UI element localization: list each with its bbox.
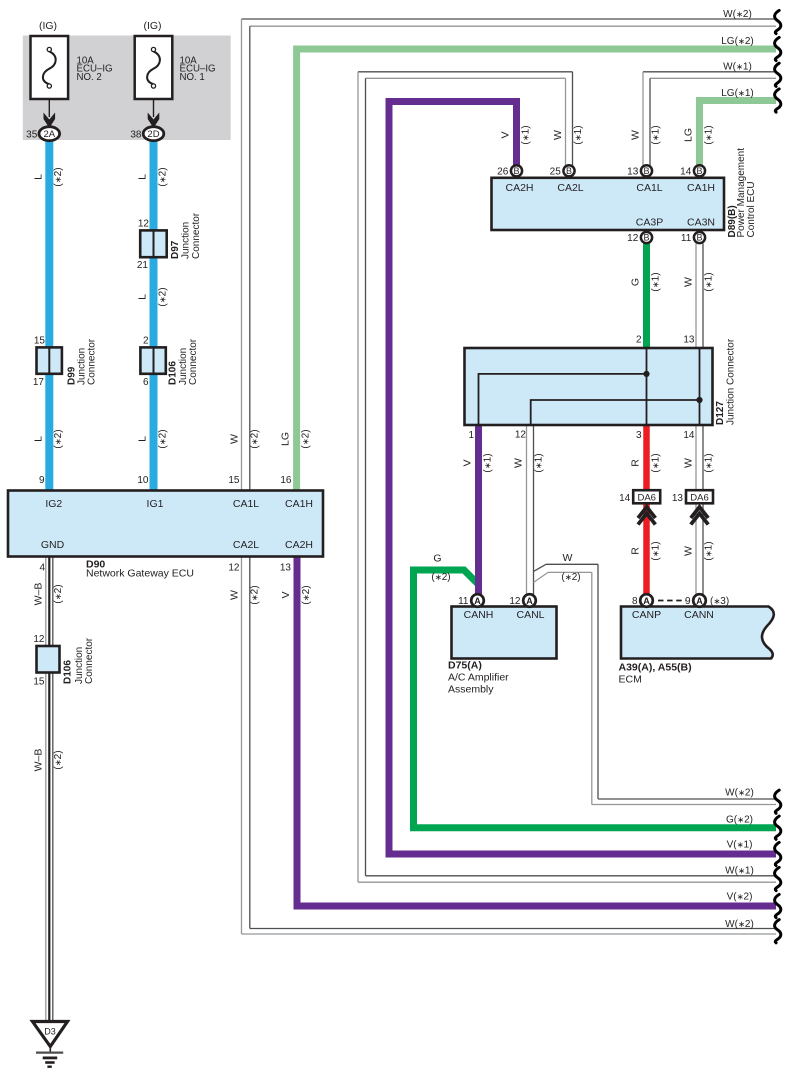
svg-text:9: 9 [39,475,45,486]
svg-text:G(∗2): G(∗2) [726,814,753,825]
fuse 10A ECU-IG NO. 2 [31,36,69,99]
svg-text:Connector: Connector [191,212,202,259]
svg-text:CA1H: CA1H [687,182,715,194]
wire W(*2) from D90 CA2L pin 12 down to bottom-right break [241,557,243,935]
svg-text:11: 11 [458,596,469,607]
break symbol for LG(*2) top wire [775,37,781,60]
svg-text:4: 4 [39,563,45,574]
svg-text:IG1: IG1 [147,498,164,510]
svg-text:11: 11 [681,233,692,244]
svg-text:3: 3 [636,430,642,441]
svg-text:(∗1): (∗1) [520,125,531,144]
svg-text:12: 12 [33,634,45,645]
svg-text:(∗2): (∗2) [250,429,261,448]
svg-text:L: L [137,436,149,442]
svg-text:W–B: W–B [32,749,44,772]
svg-text:W: W [229,434,241,444]
svg-text:21: 21 [137,260,149,271]
D127 internal vertical pin2-pin3 [646,348,648,425]
svg-text:9: 9 [685,596,691,607]
svg-text:D97: D97 [170,240,181,259]
svg-text:A: A [474,596,481,606]
svg-text:A39(A), A55(B): A39(A), A55(B) [619,662,692,674]
ECM A39(A), A55(B) box with torn right edge [621,607,774,659]
svg-text:A: A [643,596,650,606]
wire V(*1) from D127 pin 1 down to A/C amplifier CANH pin 11 [475,425,482,595]
svg-text:13: 13 [672,493,684,504]
svg-text:W: W [513,458,525,468]
dashes between CANP and CANN pins [658,600,686,602]
svg-text:B: B [643,233,649,243]
svg-text:CA2L: CA2L [557,182,583,194]
svg-text:(∗2): (∗2) [157,167,168,186]
svg-text:15: 15 [34,336,46,347]
svg-text:W: W [683,277,695,287]
svg-text:14: 14 [619,493,631,504]
svg-text:LG: LG [683,128,695,142]
pin 11 connector A [471,594,484,607]
svg-text:(∗1): (∗1) [650,272,661,291]
svg-text:Junction: Junction [180,222,191,259]
svg-text:(∗2): (∗2) [157,287,168,306]
svg-text:35: 35 [26,129,38,140]
svg-text:W: W [229,590,241,600]
connector DA6 (13) [686,490,713,503]
svg-text:CA1L: CA1L [636,182,662,194]
svg-text:W: W [563,552,573,564]
svg-text:1: 1 [468,430,474,441]
wire V(*2) from D90 CA2H pin 13 to bottom-right break [297,557,776,907]
svg-text:(∗2): (∗2) [53,584,64,603]
svg-text:2A: 2A [43,129,55,140]
svg-text:(∗1): (∗1) [533,453,544,472]
svg-text:ECM: ECM [619,674,642,686]
wire W(*1) from D89 pin 25 CA2L looping left and down to bottom-right break [572,72,574,166]
svg-text:(∗1): (∗1) [703,125,714,144]
svg-text:Connector: Connector [87,338,98,385]
svg-text:W(∗2): W(∗2) [723,9,752,20]
wire L(*2) from fuse 2A down to D90 IG2 pin 9 [45,139,53,491]
svg-text:LG(∗1): LG(∗1) [721,88,754,99]
svg-text:CA2H: CA2H [505,182,533,194]
svg-text:V: V [280,591,292,598]
svg-text:W(∗2): W(∗2) [725,919,754,930]
svg-text:W: W [552,130,564,140]
svg-text:(∗2): (∗2) [300,429,311,448]
wire G(*2) from CANH junction looping down to bottom-right break [414,570,777,828]
svg-text:12: 12 [228,563,240,574]
connector DA6 (14) [633,490,660,503]
svg-text:L: L [137,294,149,300]
break symbol for V(*2) bottom wire [775,894,781,917]
svg-text:IG2: IG2 [45,498,62,510]
svg-text:13: 13 [627,166,639,177]
break symbol for W(*2) bottom 2 wire [775,920,781,943]
svg-text:13: 13 [683,335,695,346]
wire R(*1) from D127 pin 3 down to DA6 connector [643,425,650,491]
svg-text:CANN: CANN [684,609,714,621]
svg-text:W: W [630,130,642,140]
svg-text:CA1L: CA1L [233,498,259,510]
break symbol for G(*2) bottom wire [775,816,781,839]
svg-text:2: 2 [636,335,642,346]
wire LG(*1) from top-right break to D89 pin 14 CA1H [700,101,777,166]
svg-text:D106: D106 [62,660,73,684]
D89 pin 25 connector B [563,165,574,176]
break symbol for W(*1) top wire [775,63,781,86]
svg-text:(IG): (IG) [39,20,57,32]
wire L(*2) from fuse 2D down to D90 IG1 pin 10 [150,139,158,491]
svg-text:14: 14 [680,166,692,177]
svg-text:R: R [630,459,642,467]
break symbol for W(*2) bottom wire [775,790,781,813]
junction connector D99 (two cells) [37,347,62,373]
ECU D90 Network Gateway ECU [8,491,323,557]
svg-text:A/C Amplifier: A/C Amplifier [448,672,509,684]
shield chevrons under DA6 (14) [638,507,655,518]
arrow from fuse to connector 2 [153,99,155,117]
svg-text:8: 8 [632,596,638,607]
wire W(*1) from D127 pin 14 through DA6 to ECM CANN pin 9 [695,425,697,595]
svg-text:NO. 2: NO. 2 [77,72,102,83]
wire W(*1) from top-right break to D89 pin 13 CA1L [643,71,776,73]
svg-text:Network Gateway ECU: Network Gateway ECU [86,568,194,580]
svg-text:Assembly: Assembly [448,684,494,696]
svg-text:G: G [630,278,642,286]
svg-text:W: W [683,546,695,556]
svg-text:(∗1): (∗1) [703,453,714,472]
D127 junction dot B [696,397,702,403]
svg-text:G: G [433,553,441,565]
wire G(*1) from D89 pin 12 CA3P down to D127 pin 2 [643,244,650,348]
svg-text:CANP: CANP [632,609,661,621]
svg-text:Control ECU: Control ECU [746,181,757,237]
svg-text:(∗1): (∗1) [573,125,584,144]
svg-text:CA3P: CA3P [636,217,663,229]
svg-text:A: A [696,596,703,606]
break symbol for W(*2) top wire [775,10,781,33]
svg-text:DA6: DA6 [637,493,655,504]
svg-text:12: 12 [138,219,150,230]
svg-text:12: 12 [515,430,527,441]
wire W(*2) from top-right break to D90 CA1L pin 15 [242,18,777,20]
svg-text:B: B [696,166,702,176]
svg-text:(∗2): (∗2) [53,750,64,769]
D89 pin 26 connector B [511,165,522,176]
fuse panel (ignition relay block) [23,36,231,141]
svg-text:Connector: Connector [84,637,95,684]
svg-text:(∗1): (∗1) [650,541,661,560]
svg-text:LG(∗2): LG(∗2) [721,36,754,47]
svg-text:(∗1): (∗1) [703,541,714,560]
wire R(*1) from DA6 connector down to ECM CANP pin 8 [643,503,650,595]
connector oval 2D [143,127,164,141]
svg-text:L: L [32,436,44,442]
svg-text:V(∗1): V(∗1) [727,840,753,851]
svg-text:B: B [566,166,572,176]
svg-text:DA6: DA6 [690,493,708,504]
svg-text:Junction Connector: Junction Connector [726,338,737,425]
svg-text:GND: GND [41,539,65,551]
svg-text:W–B: W–B [32,583,44,606]
svg-text:A: A [526,596,533,606]
svg-text:6: 6 [143,377,149,388]
svg-text:2D: 2D [147,129,159,140]
svg-text:W: W [683,458,695,468]
svg-text:12: 12 [627,233,639,244]
svg-text:LG: LG [280,432,292,446]
shield chevrons under DA6 (13) [691,507,708,518]
svg-text:D127: D127 [715,401,726,425]
D127 internal wire pin12 to pin13/14 [531,400,700,425]
junction connector D106 (on W-B ground wire) [37,646,60,673]
D127 internal vertical pin13-pin14 [699,348,701,425]
svg-text:(∗2): (∗2) [53,167,64,186]
pin 8 connector A [640,594,653,607]
fuse 10A ECU-IG NO. 1 [135,36,173,99]
svg-text:W(∗1): W(∗1) [725,866,754,877]
svg-text:(∗3): (∗3) [710,596,729,607]
svg-text:(∗1): (∗1) [482,453,493,472]
svg-text:B: B [696,233,702,243]
svg-text:38: 38 [130,129,142,140]
pin 9 connector A [693,594,706,607]
svg-text:14: 14 [683,430,695,441]
svg-text:(∗2): (∗2) [250,585,261,604]
D89 pin 11 connector B (bottom) [694,232,705,243]
svg-text:W(∗1): W(∗1) [723,62,752,73]
D127 internal wire pin1 to pin2/3 [479,374,647,425]
svg-text:13: 13 [280,563,292,574]
svg-text:12: 12 [509,596,521,607]
A/C amplifier assembly D75(A) box [452,607,557,659]
svg-text:16: 16 [280,475,292,486]
wire W-B(*2) from D90 GND pin 4 down to ground D3 [45,557,47,1023]
D89 pin 13 connector B [641,165,652,176]
svg-text:B: B [643,166,649,176]
junction connector D106 (two cells, on IG1 wire) [140,347,165,373]
D89 pin 12 connector B (bottom) [641,232,652,243]
svg-text:L: L [137,174,149,180]
svg-text:(∗2): (∗2) [561,572,580,583]
pin 12 connector A [523,594,536,607]
svg-text:25: 25 [550,166,562,177]
svg-text:17: 17 [33,377,45,388]
svg-text:(∗2): (∗2) [157,429,168,448]
svg-text:2: 2 [143,336,149,347]
svg-text:(∗2): (∗2) [431,572,450,583]
svg-text:NO. 1: NO. 1 [180,72,205,83]
svg-text:D75(A): D75(A) [448,660,482,672]
svg-text:CANH: CANH [464,609,494,621]
wire W(*1) from D89 pin 11 CA3N down to D127 pin 13 [695,244,697,348]
svg-text:10: 10 [137,475,149,486]
break symbol for LG(*1) top wire [775,89,781,112]
ECU D89(B) Power Management Control ECU [492,178,725,230]
wire W(*2) branch from CANL to bottom-right break [534,564,547,571]
D127 junction dot A [643,371,649,377]
break symbol for V(*1) bottom wire [775,842,781,865]
svg-text:(∗2): (∗2) [53,429,64,448]
svg-text:L: L [32,174,44,180]
wire V(*1) from D89 pin 26 CA2H looping left and down to bottom-right break [389,102,776,855]
junction connector D97 (two cells) [140,230,167,257]
ground D3 [33,1022,68,1047]
svg-text:26: 26 [497,166,509,177]
svg-text:W(∗2): W(∗2) [725,787,754,798]
svg-text:V(∗2): V(∗2) [727,892,753,903]
svg-text:CA3N: CA3N [687,217,715,229]
svg-text:CA1H: CA1H [285,498,313,510]
break symbol for W(*1) bottom wire [775,867,781,890]
svg-text:CA2L: CA2L [233,539,259,551]
svg-text:B: B [513,166,519,176]
wire LG(*2) from top-right break to D90 CA1H pin 16 [297,49,776,491]
svg-text:CA2H: CA2H [285,539,313,551]
svg-text:V: V [462,459,474,466]
svg-text:V: V [500,131,512,138]
svg-text:R: R [630,547,642,555]
D89 pin 14 connector B [694,165,705,176]
svg-text:(∗1): (∗1) [650,453,661,472]
svg-text:15: 15 [33,677,45,688]
svg-text:(IG): (IG) [143,20,161,32]
svg-text:(∗1): (∗1) [650,125,661,144]
svg-text:(∗1): (∗1) [703,272,714,291]
connector oval 2A [39,127,60,141]
svg-text:(∗2): (∗2) [301,585,312,604]
svg-text:D3: D3 [44,1027,56,1037]
wire W(*1) from D127 pin 12 down to A/C amplifier CANL pin 12 [526,425,528,595]
svg-text:15: 15 [228,475,240,486]
svg-text:Connector: Connector [188,338,199,385]
svg-text:CANL: CANL [516,609,544,621]
junction connector D127 box [465,348,713,425]
arrow from fuse to connector 1 [48,99,50,117]
black stripe of W-B wire [48,557,50,1023]
